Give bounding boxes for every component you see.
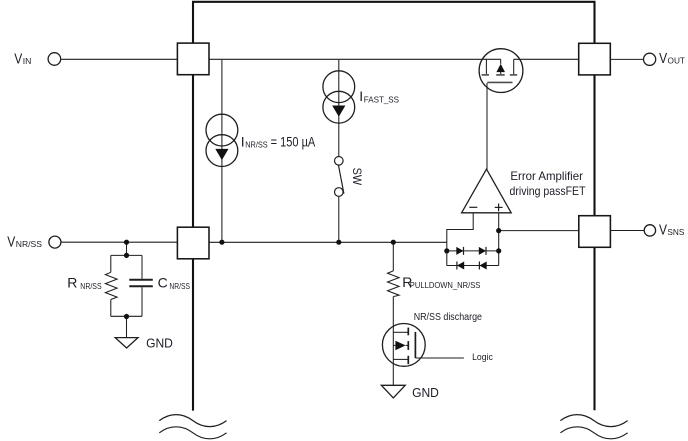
svg-text:NR/SS discharge: NR/SS discharge bbox=[414, 312, 483, 323]
svg-text:SW: SW bbox=[350, 168, 364, 186]
svg-text:OUT: OUT bbox=[668, 56, 686, 66]
svg-text:FAST_SS: FAST_SS bbox=[364, 95, 400, 105]
svg-text:NR/SS: NR/SS bbox=[80, 281, 102, 291]
svg-text:I: I bbox=[241, 133, 245, 149]
svg-text:driving passFET: driving passFET bbox=[510, 184, 587, 198]
svg-text:V: V bbox=[659, 51, 667, 67]
svg-text:Logic: Logic bbox=[472, 352, 493, 363]
svg-text:V: V bbox=[7, 234, 15, 250]
svg-text:C: C bbox=[158, 275, 168, 291]
svg-text:IN: IN bbox=[23, 56, 32, 66]
svg-text:PULLDOWN_NR/SS: PULLDOWN_NR/SS bbox=[410, 280, 481, 290]
svg-text:= 150 µA: = 150 µA bbox=[271, 133, 316, 149]
svg-text:GND: GND bbox=[412, 385, 439, 400]
svg-text:Error Amplifier: Error Amplifier bbox=[510, 169, 583, 183]
svg-text:NR/SS: NR/SS bbox=[169, 281, 190, 291]
svg-text:SNS: SNS bbox=[667, 227, 684, 237]
svg-text:NR/SS: NR/SS bbox=[16, 239, 43, 249]
svg-text:V: V bbox=[14, 51, 22, 67]
svg-text:NR/SS: NR/SS bbox=[245, 140, 268, 150]
svg-text:V: V bbox=[659, 223, 667, 239]
svg-text:I: I bbox=[359, 88, 363, 104]
svg-text:R: R bbox=[67, 275, 77, 291]
svg-text:GND: GND bbox=[146, 335, 173, 350]
